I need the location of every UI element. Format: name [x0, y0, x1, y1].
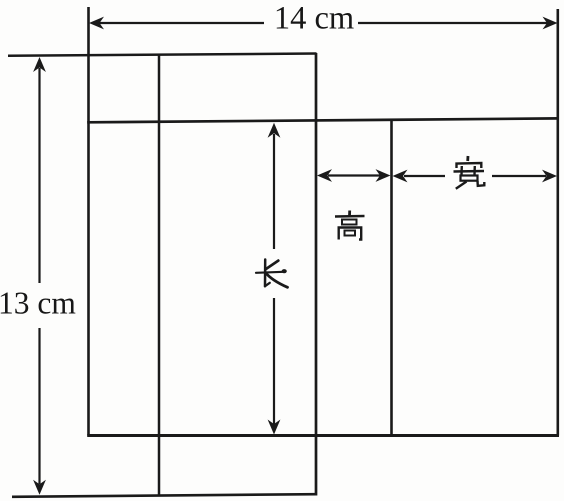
arrowhead right of 宽 dimension [542, 170, 557, 183]
arrowhead right of 14cm [543, 17, 558, 30]
wire: inner vertical divider between middle and right panel [390, 121, 393, 436]
arrowhead up of 13cm [33, 57, 46, 72]
arrowhead right of 高 dimension [376, 169, 391, 182]
wire: top edge of wide rectangle [87, 118, 559, 122]
dimension line 14 cm (horizontal, top) [98, 22, 264, 24]
label: 高 (hand-drawn glyph) [335, 211, 365, 240]
label: 长 (hand-drawn glyph) [256, 260, 288, 288]
wire: left vertical edge of wide rectangle with extension up to 14cm dimension [87, 7, 90, 436]
wire: bottom edge of tall rectangle with left extension line for 13cm [12, 494, 317, 497]
arrowhead down of 13cm [33, 480, 46, 495]
arrowhead left of 14cm [89, 17, 104, 30]
arrowhead left of 宽 dimension [393, 170, 408, 183]
arrowhead down of 长 dimension [268, 420, 281, 435]
wire: bottom edge of wide rectangle [87, 434, 559, 437]
wire: right vertical edge of tall rectangle [315, 53, 318, 496]
wire: top edge of tall rectangle with left extension line for 13cm [8, 54, 317, 56]
dimension line 13 cm (vertical, left) [38, 68, 40, 283]
svg-text:13 cm: 13 cm [0, 286, 76, 321]
wire: right vertical edge of wide rectangle with extension up to 14cm dimension [556, 9, 559, 436]
wire: left vertical edge of tall rectangle [158, 54, 161, 497]
dimension line for 宽 (horizontal, right panel) [404, 175, 445, 177]
dimension line for 长 (vertical, inside middle panel) [273, 134, 275, 249]
arrowhead left of 高 dimension [317, 169, 332, 182]
dimension line for 高 (horizontal, between panels) [328, 174, 380, 176]
svg-text:14 cm: 14 cm [274, 1, 354, 37]
arrowhead up of 长 dimension [268, 123, 281, 138]
label: 宽 (hand-drawn glyph) [454, 156, 485, 189]
